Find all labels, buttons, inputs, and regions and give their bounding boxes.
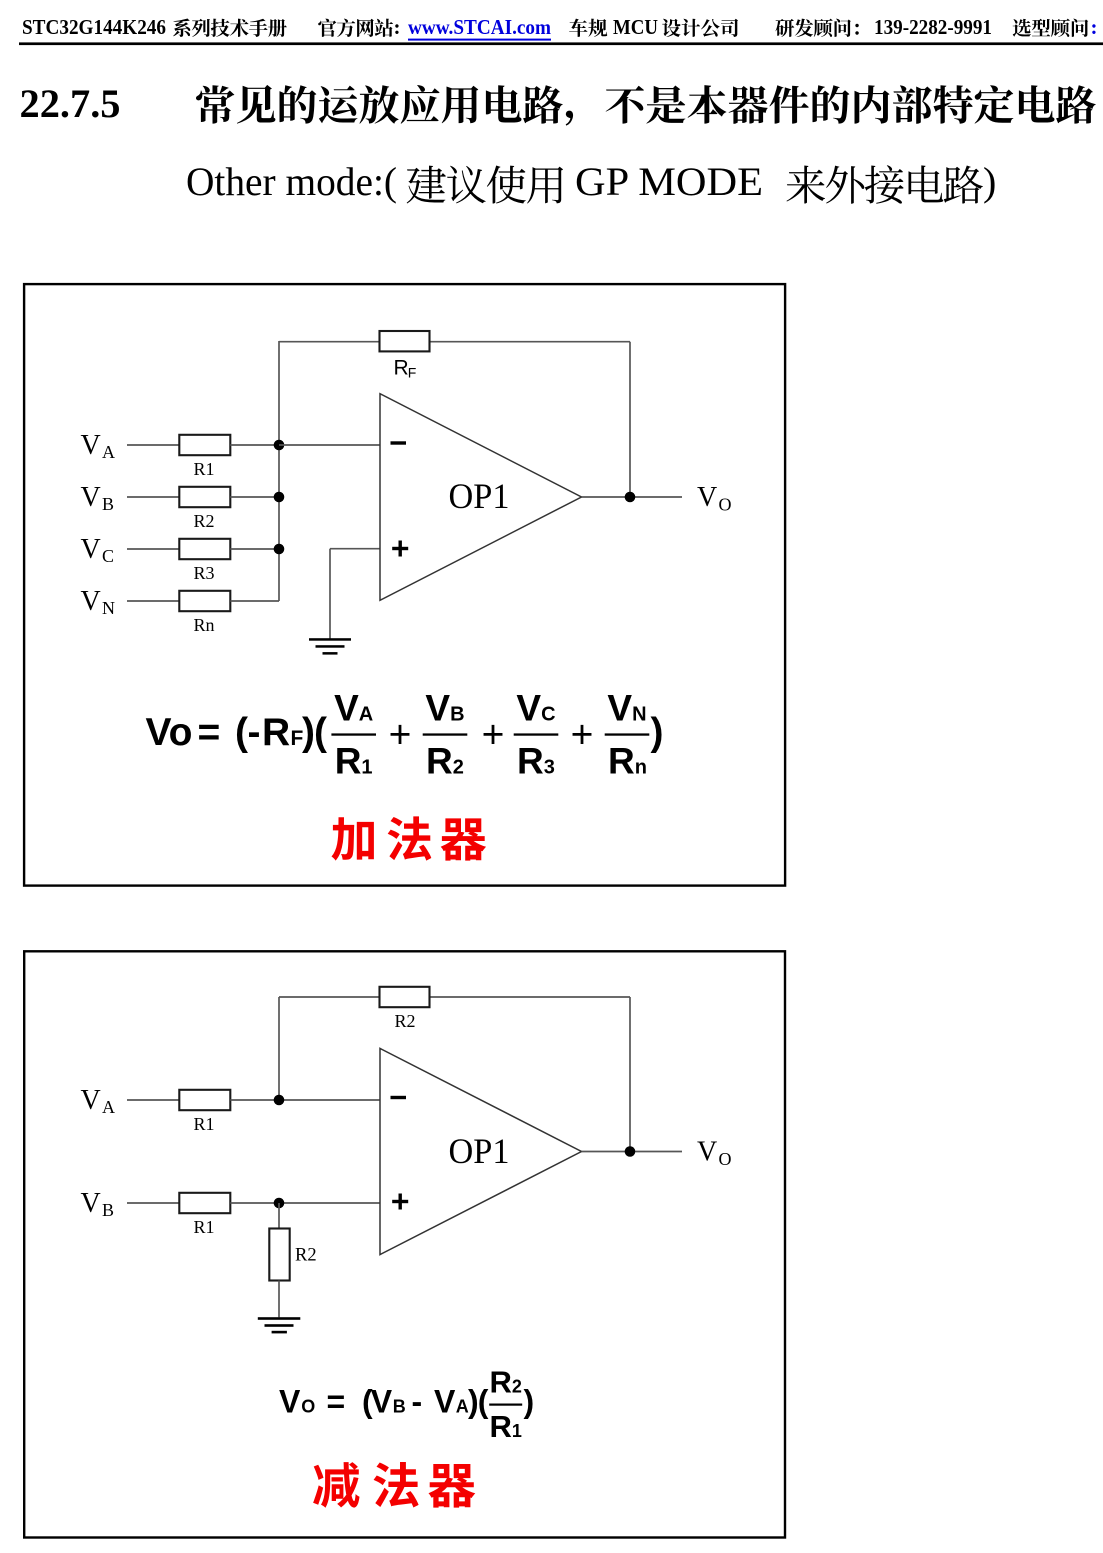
wire resistor R2 to summing bus [230,496,279,498]
svg-text:A: A [456,1397,469,1417]
node VB input label circuit 2 [81,1188,115,1220]
svg-text:V: V [334,688,359,729]
box frame circuit 2 (subtractor) [24,951,785,1537]
node VN input label [81,586,116,618]
ground symbol circuit 1 [309,638,351,654]
svg-text:V: V [81,1188,101,1219]
svg-text:R3: R3 [194,563,215,583]
svg-text:F: F [408,364,417,380]
resistor R2 feedback [380,987,430,1031]
svg-text:O: O [719,494,732,514]
svg-text:+: + [571,714,594,757]
svg-text:O: O [719,1149,732,1169]
red caption subtractor [313,1462,475,1508]
svg-text:22.7.5: 22.7.5 [20,81,121,126]
svg-text:Rn: Rn [194,615,215,635]
svg-text:V: V [697,482,717,513]
svg-text:GP MODE: GP MODE [575,159,763,204]
svg-text:C: C [541,704,555,726]
svg-text:n: n [635,757,647,779]
wire VC to resistor R3 [127,548,179,550]
svg-text:V: V [371,1384,393,1420]
resistor Rn [179,591,230,635]
output wire circuit 1 [582,496,683,498]
svg-text:www.STCAI.com: www.STCAI.com [408,15,551,39]
output junction dot circuit 1 [625,492,636,503]
svg-text:V: V [81,586,101,617]
resistor R1 lower circuit 2 [179,1193,230,1237]
feedback wire left vertical circuit 2 [278,997,280,1100]
svg-text:): ) [983,159,996,204]
svg-text:OP1: OP1 [449,1131,510,1171]
wire resistor R3 to summing bus [230,548,279,550]
svg-text:2: 2 [453,757,464,779]
svg-text:(: ( [478,1384,489,1420]
wire resistor R1 to summing bus [230,444,279,446]
feedback wire top circuit 2 [279,996,630,998]
svg-text:R2: R2 [194,511,215,531]
red caption adder [332,816,487,860]
wire VB to resistor R2 [127,496,179,498]
svg-text:V: V [697,1137,717,1168]
op-amp OP1 (subtractor) [380,1048,582,1254]
formula adder: Vo = (-RF)(VA/R1+VB/R2+VC/R3+VN/Rn) [146,688,664,782]
svg-text:1: 1 [512,1421,522,1441]
feedback wire right vertical circuit 2 [629,997,631,1152]
resistor R1 upper circuit 2 [179,1090,230,1134]
summing bus vertical wire (inverting node) [278,341,280,601]
svg-text:A: A [359,704,373,726]
svg-text:): ) [651,711,664,754]
svg-text:(: ( [314,711,327,754]
svg-text:V: V [607,688,632,729]
node VA input label [81,430,116,462]
feedback wire right vertical [629,342,631,497]
svg-text:-: - [412,1384,423,1420]
resistor R2 [179,487,230,531]
svg-text:R2: R2 [295,1246,317,1266]
output junction dot circuit 2 [625,1146,636,1157]
svg-text:Other mode:(: Other mode:( [186,159,397,204]
svg-text:V: V [81,1085,101,1116]
wire R2 shunt to ground [278,1281,280,1318]
svg-text::: : [394,15,401,39]
resistor R3 [179,539,230,583]
svg-text:3: 3 [544,757,555,779]
header rule [19,42,1103,45]
svg-text:A: A [102,1097,115,1117]
header: document title bar [22,15,1098,41]
node VC input label [81,534,115,566]
svg-text:B: B [393,1397,406,1417]
svg-text:139-2282-9991: 139-2282-9991 [874,15,992,39]
node VO output label circuit 2 [697,1137,732,1169]
svg-text:R: R [262,711,290,754]
wire VA to resistor R1 [127,1099,179,1101]
svg-text:R1: R1 [194,459,215,479]
wire bus to inverting input [279,444,380,446]
svg-text:(: ( [235,711,248,754]
junction dot VB circuit 2 [274,1198,285,1209]
wire R1 to non-inverting input [230,1202,379,1204]
wire ground to non-inverting input [330,548,380,550]
wire R1 to inverting input [230,1099,379,1101]
wire VB node to resistor R2 shunt [278,1203,280,1230]
wire VB to resistor R1 lower [127,1202,179,1204]
output wire circuit 2 [582,1151,683,1153]
resistor R1 [179,435,230,479]
svg-text:R1: R1 [194,1217,215,1237]
svg-text:MCU: MCU [613,15,658,39]
svg-text:V: V [434,1384,456,1420]
op-amp OP1 (adder) [380,394,582,601]
svg-text:B: B [450,704,464,726]
plus sign circuit 2 [392,1200,408,1203]
ground symbol circuit 2 [258,1317,301,1333]
svg-text:+: + [482,714,505,757]
svg-text:R: R [394,356,409,379]
svg-text:): ) [524,1384,535,1420]
svg-text:R: R [490,1365,512,1400]
svg-text:A: A [102,442,115,462]
svg-text:V: V [81,430,101,461]
svg-text:OP1: OP1 [449,476,510,516]
svg-text:R: R [608,741,635,782]
svg-text:STC32G144K246: STC32G144K246 [22,15,166,39]
wire VA to resistor R1 [127,444,179,446]
svg-text:V: V [516,688,541,729]
svg-text:R: R [335,741,362,782]
svg-text:C: C [102,546,114,566]
svg-text:R: R [517,741,544,782]
svg-text:+: + [389,714,412,757]
junction dot VA circuit 2 [274,1095,285,1106]
plus sign [392,547,408,550]
junction dot VB [274,492,285,503]
junction dot VA [274,440,285,451]
svg-text:Vo: Vo [146,711,193,754]
svg-text:N: N [632,704,646,726]
svg-text:=: = [327,1384,346,1420]
node VO output label circuit 1 [697,482,732,514]
node VA input label circuit 2 [81,1085,116,1117]
formula subtractor: VO = (VB - VA)(R2/R1) [279,1365,534,1445]
svg-text:R2: R2 [395,1011,416,1031]
wire VN to resistor Rn [127,600,179,602]
svg-text:B: B [102,1200,114,1220]
svg-text:R1: R1 [194,1114,215,1134]
svg-text:V: V [279,1384,301,1420]
feedback wire top [279,341,630,343]
svg-text:V: V [81,534,101,565]
svg-text:=: = [198,711,221,754]
section title 22.7.5 [20,81,1096,126]
svg-text:V: V [81,482,101,513]
wire resistor Rn to summing bus [230,600,279,602]
junction dot VC [274,544,285,555]
svg-text:V: V [425,688,450,729]
node VB input label [81,482,115,514]
svg-text:N: N [102,598,115,618]
svg-text:2: 2 [512,1377,522,1397]
svg-text:R: R [490,1409,512,1444]
subtitle Other mode [186,159,996,204]
svg-text:B: B [102,494,114,514]
resistor RF [380,331,430,380]
box frame circuit 1 (adder) [24,284,785,886]
svg-text:R: R [426,741,453,782]
svg-text:1: 1 [361,757,372,779]
svg-text:-: - [248,711,261,754]
svg-text::: : [1091,15,1098,39]
svg-text:O: O [301,1397,315,1417]
resistor R2 shunt (vertical) [269,1229,316,1281]
